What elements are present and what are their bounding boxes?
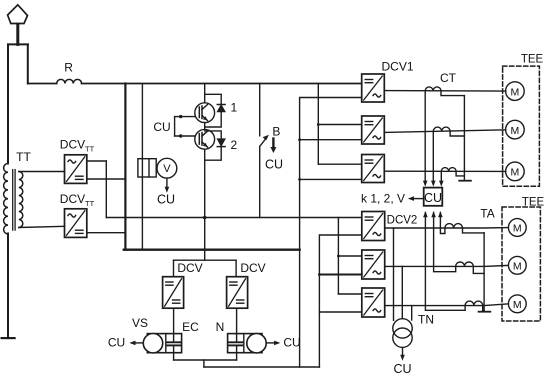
arrow voltmeter to CU (166, 178, 168, 188)
converter DCVTT1 (65, 155, 87, 184)
gate lead 2 (175, 135, 195, 137)
pantograph stem (16, 24, 19, 44)
wire chopper right to N (236, 308, 238, 342)
wire DCVTT1 top output (87, 160, 107, 162)
svg-text:M: M (513, 223, 522, 235)
TA ground bus (483, 233, 485, 312)
current transformer CT1 (425, 87, 441, 91)
svg-text:CU: CU (265, 158, 283, 172)
svg-text:M: M (511, 125, 520, 137)
motor M1 (506, 82, 525, 101)
wire storage common (174, 359, 237, 361)
svg-text:R: R (64, 61, 73, 75)
TA3 lead to CU (425, 213, 465, 311)
arrow TN to CU (402, 348, 404, 357)
TEE dashed box top (503, 66, 540, 186)
current transformer TA3 (465, 301, 483, 305)
gate control bracket (174, 117, 176, 136)
diode 1 (217, 104, 225, 106)
inverter DCV2-3 (362, 288, 385, 317)
diode 2 branch wire (205, 131, 222, 139)
negative bus (thick) (124, 248, 300, 250)
wire motor phase 6 (385, 304, 509, 306)
machine VS circle (143, 334, 162, 353)
svg-text:CU: CU (393, 362, 411, 376)
TA ground symbol (479, 311, 491, 313)
current transformer TA1 (445, 224, 463, 228)
wire DCV2 bottom-input bus (319, 235, 361, 367)
N capacitor plates (229, 341, 242, 343)
breaker B wire top (259, 84, 261, 136)
svg-text:DCV: DCV (240, 261, 265, 275)
ground (rail) (2, 337, 15, 339)
svg-text:TN: TN (418, 313, 434, 327)
wire main bus left of R (28, 83, 57, 85)
wire between transistors (204, 123, 206, 130)
svg-text:M: M (513, 261, 522, 273)
wire EC bottom (173, 345, 175, 360)
motor M3 (506, 162, 525, 181)
svg-text:TA: TA (480, 207, 494, 221)
transistor 1 (IGBT) (195, 103, 215, 123)
CT ground symbol (459, 180, 471, 182)
control unit CU box (424, 188, 443, 206)
svg-text:VS: VS (132, 316, 148, 330)
label DCVTT1 (60, 138, 95, 154)
arrow CU to k label (412, 198, 424, 200)
TA3 lead to ground (483, 306, 484, 311)
inverter DCV2-2 (362, 250, 385, 279)
motor M2 (506, 120, 525, 139)
wire pantograph right drop (27, 44, 29, 83)
voltage transformer TN (393, 319, 412, 338)
CT2 secondary lead to CU (432, 131, 434, 182)
current transformer TA2 (456, 262, 474, 266)
wire left drop to TT primary (7, 44, 9, 163)
chopper DCV left (163, 277, 184, 309)
svg-text:EC: EC (182, 320, 199, 334)
machine N circle (247, 334, 266, 353)
pantograph pentagon (8, 5, 28, 24)
diode 1 branch wire (205, 94, 222, 104)
svg-text:CU: CU (157, 193, 175, 207)
wire DCV2 top-input bus (337, 218, 339, 295)
voltage sensor box (138, 159, 156, 177)
svg-text:M: M (511, 86, 520, 98)
transformer TT primary winding (4, 164, 8, 234)
svg-text:1: 1 (231, 101, 238, 115)
wire DCV1 top-input bus (317, 84, 319, 165)
wire IGBT chain top (204, 84, 206, 103)
TA2 lead to ground (473, 266, 484, 273)
svg-text:TEE: TEE (522, 197, 545, 209)
wire vertical joining DCVTT outputs (105, 161, 107, 218)
TN primary lead A (393, 228, 395, 320)
transistor 2 (IGBT) (195, 129, 215, 149)
wire bottom return bus (204, 366, 320, 368)
chopper DCV right (227, 277, 248, 309)
svg-text:B: B (272, 125, 280, 139)
motor M5 (508, 256, 526, 274)
wire motor phase 3 (384, 170, 505, 172)
TN primary lead C (411, 306, 413, 320)
svg-text:DCV1: DCV1 (381, 60, 413, 74)
junction dots (298, 123, 340, 276)
arrow B to CU (272, 139, 274, 149)
CT ground bus (463, 96, 465, 181)
label DCVTT2 (60, 192, 95, 208)
svg-text:V: V (163, 163, 171, 175)
arrow VS to CU (134, 342, 144, 344)
svg-text:TT: TT (85, 145, 95, 154)
current transformer CT3 (441, 168, 456, 172)
svg-text:k 1, 2, V: k 1, 2, V (361, 192, 405, 206)
CT1 secondary lead to ground (441, 91, 464, 96)
EC capacitor plates (167, 341, 180, 343)
wire DCVTT2 bottom output (87, 232, 126, 234)
CT3 secondary lead to ground (456, 171, 464, 176)
wire voltmeter branch (141, 84, 143, 250)
wire DCVTT1 bottom output (87, 178, 126, 180)
wire DC link to DCV2 (long horizontal) (106, 217, 361, 219)
wire DC link vertical (thick) (124, 84, 126, 250)
wire motor phase 1 (384, 90, 505, 93)
gate lead 1 (175, 116, 195, 118)
svg-text:CU: CU (153, 120, 170, 134)
CT2 secondary lead to ground (450, 131, 464, 136)
breaker B wire bottom (259, 147, 261, 218)
svg-text:DCV: DCV (177, 261, 202, 275)
svg-text:CU: CU (108, 335, 125, 349)
svg-text:TT: TT (85, 199, 95, 208)
svg-text:2: 2 (231, 138, 238, 152)
TA1 lead to CU (440, 213, 445, 234)
CT1 secondary lead to CU (424, 91, 426, 183)
inverter DCV1-1 (362, 74, 385, 102)
wire TT secondary to DCVTT1 (19, 171, 65, 173)
wire main bus R to DCV1 (82, 83, 362, 85)
wire TT secondary to DCVTT2 (19, 226, 65, 227)
wire motor phase 4 (385, 227, 509, 229)
wire motor phase 5 (385, 265, 509, 266)
motor M6 (508, 295, 526, 313)
inverter DCV1-2 (362, 116, 385, 144)
storage unit N box (228, 334, 262, 353)
converter DCVTT2 (65, 209, 87, 238)
reactor R (57, 79, 82, 83)
svg-text:DCV2: DCV2 (387, 215, 418, 227)
transformer TT secondary winding (19, 172, 23, 228)
wire N bottom (236, 345, 238, 360)
breaker B blade (260, 137, 267, 146)
svg-text:TT: TT (16, 150, 31, 164)
wire TT primary to ground (7, 234, 9, 339)
svg-text:CU: CU (283, 335, 300, 349)
motor M4 (508, 219, 526, 237)
TA1 lead to ground (463, 228, 485, 233)
TA2 lead to CU (434, 213, 456, 272)
svg-text:DCV: DCV (60, 192, 85, 206)
storage unit EC box (147, 334, 181, 353)
svg-text:M: M (513, 299, 522, 311)
wire storage drop (203, 360, 205, 367)
wire DCV1 bottom-input bus (300, 98, 362, 368)
inverter DCV1-3 (362, 155, 385, 183)
transformer TT core (12, 170, 14, 231)
svg-text:CU: CU (424, 191, 442, 205)
wire chopper feed split (174, 259, 237, 261)
voltmeter V (157, 158, 177, 178)
svg-text:N: N (216, 320, 225, 334)
svg-text:M: M (511, 167, 520, 179)
arrow N to CU (266, 342, 276, 344)
TEE dashed box bottom (502, 207, 540, 321)
diode 2 (217, 139, 225, 146)
TN primary lead B (401, 266, 403, 318)
wire chopper left to EC (173, 308, 175, 342)
svg-text:TEE: TEE (521, 54, 544, 66)
wire motor phase 2 (384, 130, 505, 133)
current transformer CT2 (433, 127, 450, 131)
wire IGBT chain bottom (204, 149, 206, 260)
CT3 secondary lead to CU (440, 171, 442, 182)
inverter DCV2-1 (362, 212, 385, 241)
svg-text:DCV: DCV (60, 138, 85, 152)
svg-text:CT: CT (440, 71, 457, 85)
collector bar (8, 43, 28, 45)
